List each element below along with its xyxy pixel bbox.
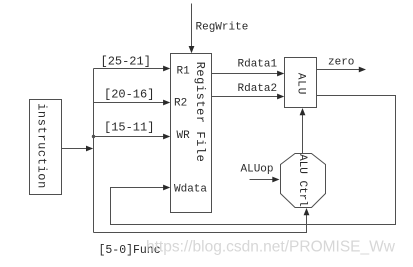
svg-text:instruction: instruction bbox=[35, 103, 49, 189]
wire ALU result to Wdata bbox=[111, 96, 396, 225]
svg-text:RegWrite: RegWrite bbox=[196, 22, 249, 34]
svg-text:R2: R2 bbox=[174, 98, 187, 110]
svg-text:R1: R1 bbox=[177, 66, 191, 78]
svg-text:[25-21]: [25-21] bbox=[101, 55, 151, 69]
svg-text:WR: WR bbox=[177, 130, 191, 142]
wire WR bbox=[92, 134, 171, 140]
wire Func to ALU Ctrl bbox=[94, 208, 310, 233]
svg-text:zero: zero bbox=[328, 57, 354, 69]
svg-text:ALU Ctrl: ALU Ctrl bbox=[296, 154, 308, 207]
wire ALUop bbox=[250, 177, 280, 183]
block instruction bbox=[30, 100, 62, 195]
wire ALU Ctrl to ALU bbox=[300, 108, 306, 154]
svg-text:Wdata: Wdata bbox=[174, 184, 207, 196]
wire R2 bbox=[94, 100, 171, 106]
svg-text:ALUop: ALUop bbox=[241, 164, 274, 176]
wire instruction to bus bbox=[62, 146, 94, 152]
svg-text:https://blog.csdn.net/PROMISE_: https://blog.csdn.net/PROMISE_Ww bbox=[146, 239, 396, 256]
wire Rdata2 bbox=[212, 94, 285, 100]
ALU Ctrl U3 octagon bbox=[281, 154, 326, 208]
wire RegWrite bbox=[189, 4, 195, 54]
svg-text:ALU: ALU bbox=[295, 73, 307, 95]
svg-text:Rdata2: Rdata2 bbox=[238, 83, 278, 95]
wire instruction bus vertical bbox=[93, 69, 95, 233]
svg-text:[15-11]: [15-11] bbox=[104, 121, 154, 135]
register file U1 bbox=[171, 54, 212, 213]
svg-text:[20-16]: [20-16] bbox=[104, 88, 154, 102]
wire R1 bbox=[94, 66, 171, 72]
wire zero bbox=[317, 67, 367, 73]
svg-text:Register File: Register File bbox=[193, 62, 207, 163]
wire Rdata1 bbox=[212, 71, 285, 77]
ALU U2 bbox=[285, 58, 317, 108]
svg-text:Rdata1: Rdata1 bbox=[238, 59, 278, 71]
